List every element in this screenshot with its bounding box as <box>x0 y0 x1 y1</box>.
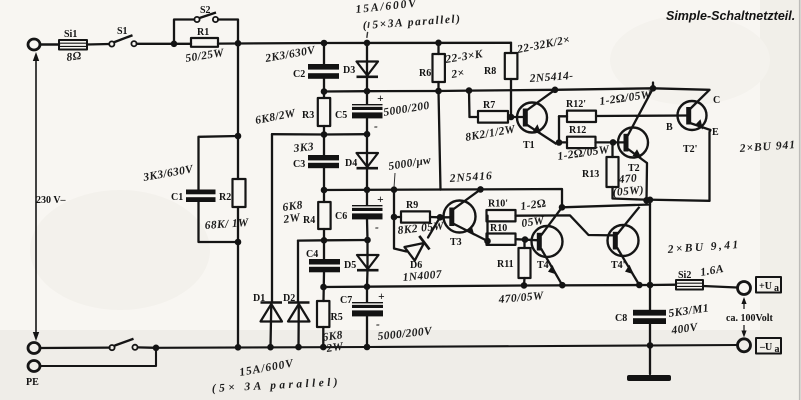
node R13 top junction <box>610 139 617 146</box>
input terminal N <box>28 343 40 354</box>
+Ua box <box>756 277 781 294</box>
wire R6 column down to row3 <box>439 91 441 190</box>
wire D1 bottom lead <box>269 303 272 348</box>
svg-text:R9: R9 <box>406 200 418 211</box>
resistor R9 <box>394 200 445 237</box>
resistor R7 <box>464 91 517 144</box>
node A junction <box>171 41 178 48</box>
resistor R4 <box>282 199 331 229</box>
wire emitter bottom line <box>640 200 710 201</box>
5000uW callout <box>388 154 432 188</box>
node row2 mid junction <box>321 131 328 138</box>
node left rail bottom junction <box>235 344 242 351</box>
node row1 right junction <box>364 88 371 95</box>
node T3 base junction <box>437 214 444 221</box>
wire D4 bottom lead <box>366 168 368 190</box>
svg-text:C3: C3 <box>293 159 305 170</box>
svg-text:Simple-Schaltnetzteil.: Simple-Schaltnetzteil. <box>666 9 795 23</box>
input terminal L <box>28 39 40 50</box>
diode D2 <box>283 293 310 322</box>
svg-text:R2: R2 <box>219 192 231 203</box>
svg-text:T2': T2' <box>683 144 698 155</box>
wire R10 to T4 base <box>516 239 540 240</box>
wire C3 bottom lead <box>323 168 325 202</box>
node PE-join junction <box>153 345 160 352</box>
svg-text:D5: D5 <box>344 260 356 271</box>
node row4 left junction <box>321 237 328 244</box>
wire C4 bottom lead <box>322 272 325 301</box>
svg-text:D2: D2 <box>283 293 295 304</box>
capacitor C8 <box>615 302 710 337</box>
node T2 collector junction <box>650 85 657 92</box>
node T4' emitter junction <box>636 282 643 289</box>
wire D3 bottom lead <box>366 77 368 91</box>
svg-text:T1: T1 <box>523 140 535 151</box>
resistor R2 <box>204 179 249 232</box>
svg-text:D3: D3 <box>343 65 355 76</box>
wire R4 bottom lead <box>323 229 325 259</box>
node emitter-rail junction <box>647 197 654 204</box>
svg-text:+: + <box>378 291 385 303</box>
svg-text:2×: 2× <box>450 67 466 81</box>
node T4 emitter junction <box>559 282 566 289</box>
wire C2 top lead <box>323 43 325 64</box>
wire Si2 to +Ua terminal <box>703 286 737 288</box>
transistor T2' <box>666 90 720 155</box>
wire C2 bottom lead <box>323 79 325 98</box>
wire R10' to T4' base <box>516 215 615 235</box>
-Ua terminal <box>738 339 751 352</box>
resistor R13 <box>582 142 645 199</box>
capacitor C1 loop wire <box>199 136 239 190</box>
wire D3 top lead <box>366 43 368 77</box>
diode D5 <box>344 255 379 271</box>
wire C7 bottom lead <box>366 316 368 347</box>
left rail lower segment <box>237 207 239 347</box>
node D2 bottom junction <box>295 344 302 351</box>
svg-text:C4: C4 <box>306 249 318 260</box>
node T1 emitter junction <box>556 139 563 146</box>
wire terminal to fuse <box>40 43 59 45</box>
svg-text:R3: R3 <box>302 110 314 121</box>
node C1 top junction <box>235 133 242 140</box>
node R11 top junction <box>522 236 529 243</box>
diode D6 bypass <box>394 217 443 284</box>
capacitor C3 <box>292 141 339 170</box>
wire D2 bottom lead <box>297 303 300 348</box>
svg-text:C7: C7 <box>340 295 352 306</box>
svg-text:R11: R11 <box>497 259 514 270</box>
bottom switch <box>109 339 137 350</box>
svg-text:C: C <box>713 95 720 106</box>
capacitor C1 <box>141 163 215 203</box>
node rail output junction <box>647 282 654 289</box>
node R9 drop junction <box>391 186 398 193</box>
svg-text:R10: R10 <box>490 223 507 234</box>
main output rail <box>649 200 651 310</box>
wire node row1 <box>324 90 439 93</box>
svg-text:Si1: Si1 <box>64 29 77 40</box>
resistor R12 <box>557 125 611 163</box>
wire node row4 <box>298 239 368 242</box>
svg-text:R12: R12 <box>569 125 586 136</box>
svg-text:a: a <box>774 283 779 294</box>
transistor T1 <box>517 90 557 151</box>
wire R3 bottom lead <box>323 126 325 155</box>
node R6 bottom junction <box>435 88 442 95</box>
svg-text:C6: C6 <box>335 211 347 222</box>
wire T2 emitter drop <box>645 163 648 201</box>
svg-text:C5: C5 <box>335 110 347 121</box>
svg-text:R1: R1 <box>197 27 209 38</box>
node C1 bottom junction <box>235 239 242 246</box>
resistor R8 <box>484 34 571 117</box>
diode D4 <box>345 153 378 169</box>
wire C7 top lead <box>366 287 368 302</box>
node T1 base junction <box>508 114 515 121</box>
wire R5 bottom lead <box>322 327 324 347</box>
wire C6 top lead <box>366 190 368 205</box>
node T1 collector junction <box>552 87 559 94</box>
svg-text:+: + <box>377 93 384 105</box>
wire R12 to T2 base <box>596 141 627 143</box>
resistor R3 <box>254 98 330 127</box>
svg-text:C8: C8 <box>615 313 627 324</box>
svg-text:R7: R7 <box>483 100 495 111</box>
node row4 right junction <box>364 237 371 244</box>
transistor T2 <box>618 88 653 174</box>
capacitor C4 <box>306 249 340 272</box>
node top D3 junction <box>364 40 371 47</box>
node B junction right of R1 <box>235 40 242 47</box>
wire C5 top lead <box>366 91 368 104</box>
wire terminal to bottom switch <box>40 346 110 349</box>
node top C2 junction <box>321 40 328 47</box>
node row3 D4 junction <box>364 187 371 194</box>
svg-text:a: a <box>775 344 780 355</box>
wire D5 top lead <box>366 240 368 270</box>
svg-text:-: - <box>374 121 378 133</box>
svg-text:2W: 2W <box>325 341 345 355</box>
svg-text:C2: C2 <box>293 69 305 80</box>
svg-text:-: - <box>375 222 379 234</box>
wire node row3 to T4 drop <box>324 189 562 207</box>
-Ua box <box>756 338 781 355</box>
svg-text:S1: S1 <box>117 26 128 37</box>
svg-text:T4': T4' <box>611 260 626 271</box>
svg-text:–U: –U <box>759 342 772 353</box>
resistor R12' <box>559 89 653 122</box>
svg-text:R12': R12' <box>566 99 586 110</box>
svg-text:3K3: 3K3 <box>292 141 315 155</box>
node T3 collector junction <box>477 186 484 193</box>
svg-text:Si2: Si2 <box>678 270 691 281</box>
node top R6 junction <box>435 40 442 47</box>
svg-text:D1: D1 <box>253 293 265 304</box>
switch S2 <box>194 5 218 22</box>
+Ua terminal <box>738 282 751 295</box>
callout dash to D3 <box>367 22 370 40</box>
capacitor C2 <box>263 44 339 80</box>
svg-text:470: 470 <box>617 172 637 186</box>
switch S1 <box>109 26 136 47</box>
capacitor C6 electrolytic <box>335 194 384 234</box>
wire T2' emitter drop <box>710 130 711 201</box>
left rail upper segment <box>237 43 239 179</box>
wire D1 column <box>271 134 273 302</box>
node row3 left junction <box>321 187 328 194</box>
wire C6 bottom lead <box>366 219 369 240</box>
transistor T4 <box>532 207 563 285</box>
ground <box>627 375 671 381</box>
wire R10 R10' left common <box>486 216 488 241</box>
transistor T4' <box>608 207 640 285</box>
svg-text:ca. 100Volt: ca. 100Volt <box>726 313 774 324</box>
svg-text:R5: R5 <box>331 312 343 323</box>
svg-text:R6: R6 <box>419 68 431 79</box>
node R9 left junction <box>391 214 398 221</box>
wire R12 R12' left common <box>558 116 560 142</box>
wire T4 collector row <box>562 205 650 208</box>
svg-text:PE: PE <box>26 377 39 388</box>
node C8 bottom junction <box>647 342 654 349</box>
svg-text:R4: R4 <box>303 215 315 226</box>
svg-text:2W: 2W <box>282 212 302 226</box>
node T2 emitter bottom junction <box>643 197 650 204</box>
node T3 emitter junction <box>484 238 491 245</box>
svg-text:D6: D6 <box>410 260 422 271</box>
fuse Si1 <box>59 29 87 64</box>
diode D1 <box>253 293 282 322</box>
node row1 left junction <box>321 88 328 95</box>
capacitor C7 electrolytic <box>340 291 434 343</box>
wire D2 column <box>297 241 299 302</box>
wire D5 bottom lead <box>366 270 369 287</box>
svg-text:B: B <box>666 122 673 133</box>
PE wire <box>40 348 156 366</box>
resistor R1 <box>185 27 226 65</box>
node C7 bottom junction <box>364 344 371 351</box>
svg-text:230 V–: 230 V– <box>36 195 67 206</box>
bottom rail wire <box>156 345 738 348</box>
svg-text:C1: C1 <box>171 192 183 203</box>
wire R9 drop <box>393 190 395 217</box>
switch S2 bypass wire <box>174 20 194 44</box>
svg-text:+U: +U <box>759 281 772 292</box>
wire stub above T2 collector node <box>652 83 654 89</box>
top wire R1 to R8 <box>218 42 511 45</box>
resistor R11 <box>497 240 544 306</box>
svg-text:-: - <box>376 319 380 331</box>
svg-text:T3: T3 <box>450 237 462 248</box>
node D1 bottom junction <box>267 344 274 351</box>
output rail wire to Si2 <box>324 285 677 287</box>
resistor R10 <box>487 223 516 245</box>
capacitor C5 electrolytic <box>335 93 431 133</box>
node T4 collector junction <box>559 204 566 211</box>
ca 100Volt span <box>726 297 774 338</box>
wire R12' to T2' base <box>596 114 689 117</box>
node R11 bottom junction <box>521 282 528 289</box>
svg-text:E: E <box>712 127 719 138</box>
svg-text:T4: T4 <box>537 260 549 271</box>
fuse Si2 <box>676 263 725 289</box>
230V span arrow <box>33 52 67 341</box>
wire row1 extension to T2 collector node <box>439 88 710 91</box>
PE terminal <box>28 361 40 372</box>
resistor R5 <box>317 301 344 355</box>
wire C8 bottom to rail bottom <box>649 324 651 374</box>
svg-text:T2: T2 <box>628 163 640 174</box>
node row2 right junction <box>364 131 371 138</box>
svg-text:R8: R8 <box>484 66 496 77</box>
svg-text:D4: D4 <box>345 158 357 169</box>
transistor T3 <box>440 189 488 248</box>
wire switch to node PE-join <box>138 346 156 349</box>
wire fuse to S1 <box>87 43 109 46</box>
resistor R6 <box>419 43 485 91</box>
node row5 C7 junction <box>364 283 371 290</box>
diode D3 <box>343 62 378 77</box>
node row5 left junction <box>320 284 327 291</box>
svg-text:S2: S2 <box>200 5 211 16</box>
svg-text:R10': R10' <box>488 199 508 210</box>
wire node row2 <box>272 133 367 136</box>
svg-text:+: + <box>377 194 384 206</box>
wire C5 bottom lead <box>366 118 368 134</box>
node R7 drop junction <box>466 87 473 94</box>
resistor R10' <box>487 198 547 230</box>
svg-text:R13: R13 <box>582 169 599 180</box>
wire S1 to node A <box>137 43 191 45</box>
node R5 bottom junction <box>320 344 327 351</box>
svg-text:8Ω: 8Ω <box>66 50 83 64</box>
wire D4 top lead <box>366 134 368 168</box>
